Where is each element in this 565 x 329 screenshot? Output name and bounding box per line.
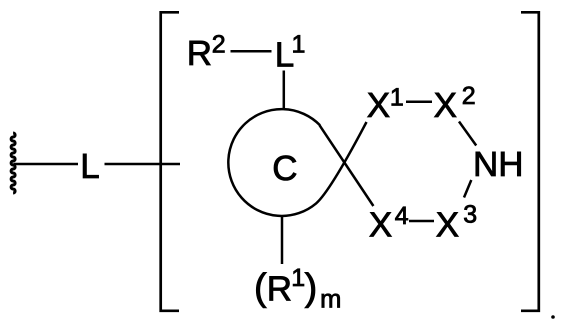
svg-text:2: 2 xyxy=(462,82,476,110)
svg-text:R: R xyxy=(187,34,212,73)
svg-text:(: ( xyxy=(254,267,267,309)
left bracket xyxy=(161,12,179,311)
svg-text:X: X xyxy=(434,86,457,125)
period xyxy=(551,315,555,319)
bond ring-(R1)m xyxy=(281,217,284,265)
svg-text:4: 4 xyxy=(395,202,409,230)
svg-text:R: R xyxy=(267,270,292,309)
svg-text:X: X xyxy=(367,86,390,125)
svg-text:C: C xyxy=(272,149,297,188)
right bracket xyxy=(521,12,539,311)
svg-text:L: L xyxy=(80,147,99,186)
wire L-to-bracket xyxy=(105,163,181,166)
svg-text:NH: NH xyxy=(473,145,524,184)
bond NH-X3 xyxy=(464,180,471,198)
spiro bond to X4 xyxy=(320,125,374,206)
ring C arc + spiro bond to X1 xyxy=(228,109,366,216)
svg-text:3: 3 xyxy=(463,200,477,228)
svg-text:2: 2 xyxy=(212,31,226,59)
svg-text:X: X xyxy=(369,205,392,244)
svg-text:m: m xyxy=(320,285,341,313)
svg-text:1: 1 xyxy=(291,264,305,292)
wavy attachment bond xyxy=(11,133,15,193)
bond L1-ring xyxy=(283,71,286,111)
svg-text:1: 1 xyxy=(292,31,306,59)
bond X2-NH xyxy=(459,122,476,146)
bond R2-L1 xyxy=(231,50,272,53)
wire squiggle-to-L xyxy=(14,163,79,166)
bond X1-X2 xyxy=(406,101,432,104)
bond X4-X3 xyxy=(409,220,434,223)
svg-text:X: X xyxy=(436,205,459,244)
svg-text:1: 1 xyxy=(390,83,404,111)
svg-text:): ) xyxy=(305,267,318,309)
